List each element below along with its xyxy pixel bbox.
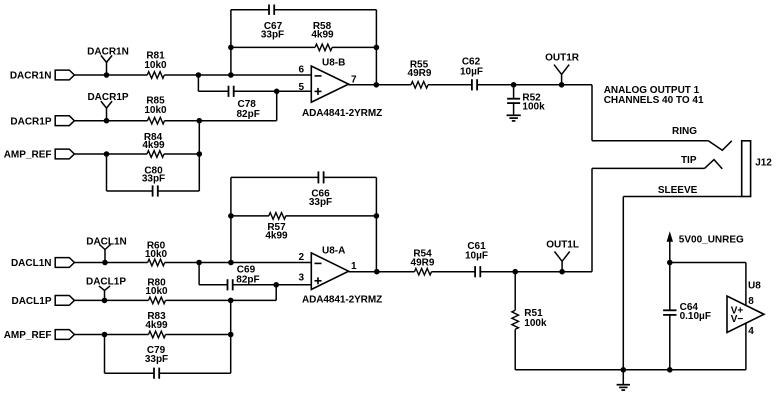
net flag DACR1N — [87, 46, 129, 77]
label ANALOG OUTPUT 1 — [604, 85, 700, 96]
resistor R83 — [145, 311, 168, 338]
svg-text:33pF: 33pF — [261, 30, 284, 41]
wire sleeve vertical to ground rail — [622, 197, 624, 370]
svg-text:49R9: 49R9 — [408, 68, 432, 79]
junction C64/ground rail — [667, 367, 673, 373]
svg-text:10k0: 10k0 — [144, 60, 167, 71]
svg-text:3: 3 — [298, 272, 304, 283]
svg-text:6: 6 — [298, 65, 304, 76]
svg-text:4: 4 — [748, 326, 754, 337]
wire C79 loop bottom left — [105, 372, 155, 374]
U8 pin 4 label — [748, 326, 754, 337]
resistor R60 — [145, 240, 168, 265]
svg-text:4k99: 4k99 — [311, 30, 334, 41]
wire vertical DACL1N to C69 — [198, 263, 200, 285]
wire C64 top lead — [669, 263, 671, 311]
capacitor C62 — [460, 57, 483, 91]
wire vertical wire1 to C78 — [197, 75, 199, 91]
wire R57 lead right — [286, 215, 377, 217]
wire R58 lead right — [332, 46, 376, 48]
op-amp U8-B — [311, 58, 348, 103]
svg-text:U8-A: U8-A — [322, 246, 345, 257]
wire R58 lead left — [231, 46, 315, 48]
wire AMP_REF port to R84 — [74, 153, 147, 155]
svg-text:4k99: 4k99 — [265, 231, 288, 242]
port DACL1P — [11, 296, 74, 308]
resistor R52 (cap-style symbol) — [507, 85, 545, 115]
label CHANNELS 40 TO 41 — [604, 95, 704, 106]
svg-text:DACL1P: DACL1P — [11, 296, 51, 307]
capacitor C64 — [663, 302, 711, 322]
wire C69 left lead — [199, 284, 227, 286]
svg-text:10k0: 10k0 — [145, 286, 168, 297]
wire R84 to junction — [164, 153, 199, 155]
junction wire1/feedback — [228, 72, 234, 78]
junction U8-B output node — [374, 82, 380, 88]
svg-text:ADA4841-2YRMZ: ADA4841-2YRMZ — [302, 108, 382, 119]
svg-text:OUT1L: OUT1L — [546, 240, 579, 251]
junction AMP_REF/C79 branch — [102, 332, 108, 338]
label TIP — [681, 155, 697, 166]
port AMP_REF (bottom) — [4, 330, 75, 342]
svg-text:DACL1N: DACL1N — [86, 236, 127, 247]
junction R51 branch — [512, 269, 518, 275]
junction pin5 node — [274, 89, 280, 95]
net flag DACL1N — [86, 236, 127, 265]
wire R55 to C62 — [428, 84, 472, 86]
resistor R57 — [265, 213, 288, 242]
svg-text:V−: V− — [731, 314, 744, 325]
wire feedback box right vertical (bottom) — [375, 177, 377, 271]
svg-text:33pF: 33pF — [142, 174, 165, 185]
svg-text:ADA4841-2YRMZ: ADA4841-2YRMZ — [302, 295, 382, 306]
svg-text:5V00_UNREG: 5V00_UNREG — [679, 234, 744, 245]
capacitor C69 — [228, 265, 260, 291]
wire feedback2 top right segment — [324, 176, 377, 178]
junction wire1/C78 branch — [196, 72, 202, 78]
junction pin3 node — [273, 282, 279, 288]
junction 5V node — [667, 260, 673, 266]
capacitor C79 — [145, 345, 168, 379]
wire C64 bottom lead — [669, 315, 671, 370]
wire C61 to corner — [480, 271, 592, 273]
wire R81 to op-amp pin 6 — [164, 74, 311, 76]
svg-text:SLEEVE: SLEEVE — [658, 185, 698, 196]
svg-text:DACL1N: DACL1N — [11, 258, 52, 269]
wire SLEEVE — [623, 196, 741, 198]
wire corner down to RING — [591, 85, 593, 141]
svg-text:U8-B: U8-B — [322, 58, 345, 69]
svg-text:8: 8 — [748, 296, 754, 307]
svg-text:82pF: 82pF — [237, 109, 260, 120]
svg-text:10µF: 10µF — [460, 66, 483, 77]
resistor R85 — [144, 96, 167, 124]
resistor R58 — [311, 21, 334, 51]
junction R85 output node — [197, 118, 203, 124]
wire RING — [592, 140, 708, 142]
connector J12 body — [742, 141, 773, 197]
svg-text:49R9: 49R9 — [411, 257, 435, 268]
svg-text:U8: U8 — [748, 280, 761, 291]
wire C79 loop bottom right — [159, 372, 231, 374]
op-amp U8-A — [311, 246, 348, 290]
wire U8 power vertical — [745, 263, 747, 370]
wire corner up to TIP — [591, 168, 593, 271]
svg-text:33pF: 33pF — [145, 354, 168, 365]
resistor R51 — [512, 272, 547, 370]
svg-text:10k0: 10k0 — [144, 105, 167, 116]
resistor R80 — [145, 277, 168, 303]
svg-text:10k0: 10k0 — [145, 249, 168, 260]
svg-text:RING: RING — [672, 126, 697, 137]
U8-A pin 1 label — [351, 261, 357, 272]
wire C80 loop bottom left — [107, 190, 153, 192]
svg-text:DACR1N: DACR1N — [87, 46, 129, 57]
svg-text:2: 2 — [298, 252, 304, 263]
resistor R84 — [142, 132, 165, 158]
wire vertical non-inverting tie (bottom) — [230, 300, 232, 373]
svg-text:DACR1P: DACR1P — [10, 116, 51, 127]
port AMP_REF (top) — [4, 149, 75, 161]
svg-text:DACR1N: DACR1N — [10, 71, 52, 82]
U8 pin 8 label — [748, 296, 754, 307]
wire TIP — [592, 167, 705, 169]
junction R84 output node — [197, 151, 203, 157]
wire feedback2 top left segment — [231, 176, 319, 178]
wire R83 to junction — [166, 334, 231, 336]
svg-text:33pF: 33pF — [309, 197, 332, 208]
wire C78 left lead — [198, 90, 228, 92]
U8-A part value ADA4841-2YRMZ — [302, 295, 382, 306]
resistor R54 — [411, 248, 435, 275]
capacitor C78 — [229, 86, 260, 120]
port DACR1N — [10, 70, 75, 82]
wire R60 to op-amp pin 2 — [165, 262, 312, 264]
junction U8-A output node — [374, 269, 380, 275]
svg-text:AMP_REF: AMP_REF — [4, 150, 52, 161]
wire C62 to corner — [477, 84, 592, 86]
wire C78 to op-amp pin 5 — [234, 90, 312, 92]
wire vertical pin5 node to DACR1P wire — [276, 91, 278, 120]
svg-text:DACL1P: DACL1P — [86, 276, 126, 287]
junction R80 output node — [228, 298, 234, 304]
svg-text:5: 5 — [298, 82, 304, 93]
wire DACR1P port to R85 — [74, 120, 147, 122]
resistor R81 — [144, 51, 167, 79]
wire AMP_REF port to R83 — [74, 334, 148, 336]
wire U8-A output to R54 — [349, 271, 415, 273]
port DACL1N — [11, 258, 74, 270]
wire feedback top right segment — [274, 9, 376, 11]
svg-text:CHANNELS 40 TO 41: CHANNELS 40 TO 41 — [604, 95, 704, 106]
U8 power symbol — [727, 296, 764, 333]
svg-text:TIP: TIP — [681, 155, 697, 166]
svg-text:AMP_REF: AMP_REF — [4, 330, 52, 341]
junction R52 branch — [511, 82, 517, 88]
net flag OUT1L — [546, 240, 579, 275]
junction R57 wire left — [228, 213, 234, 219]
net flag OUT1R — [545, 53, 580, 88]
junction AMP_REF/C80 branch — [104, 151, 110, 157]
net flag DACL1P — [86, 276, 126, 303]
jack J12 tip contact — [705, 160, 723, 169]
svg-text:7: 7 — [351, 74, 357, 85]
capacitor C80 — [142, 165, 165, 196]
net flag DACR1P — [87, 92, 128, 123]
wire C80 loop bottom right — [158, 190, 200, 192]
wire R57 lead left — [231, 215, 269, 217]
svg-text:0.10µF: 0.10µF — [680, 311, 711, 322]
junction DACL1N/C69 branch — [196, 260, 202, 266]
junction R58 wire right — [374, 45, 380, 51]
svg-text:4k99: 4k99 — [145, 320, 168, 331]
wire R54 to C61 — [432, 271, 476, 273]
label SLEEVE — [658, 185, 698, 196]
wire feedback box left vertical (top) — [230, 10, 232, 75]
wire C79 loop left vertical — [104, 335, 106, 374]
U8-B pin 5 label — [298, 82, 304, 93]
U8-B part value ADA4841-2YRMZ — [302, 108, 382, 119]
wire vertical pin3 node to DACL1P wire — [275, 285, 277, 301]
power flag 5V00_UNREG — [667, 231, 744, 262]
svg-text:82pF: 82pF — [236, 275, 259, 286]
port DACR1P — [10, 116, 74, 128]
svg-text:100k: 100k — [522, 101, 545, 112]
ground below R52 — [507, 115, 521, 121]
capacitor C66 — [309, 171, 332, 208]
junction DACL1N/feedback — [228, 260, 234, 266]
svg-text:OUT1R: OUT1R — [545, 53, 580, 64]
wire ground rail — [515, 369, 746, 371]
svg-text:4k99: 4k99 — [142, 140, 165, 151]
U8 power refdes label — [748, 280, 761, 291]
svg-text:DACR1P: DACR1P — [87, 92, 128, 103]
wire U8-B output to R55 — [349, 84, 411, 86]
junction R57 wire right — [374, 213, 380, 219]
wire R85 to pin5 vertical — [165, 120, 277, 122]
U8-B pin 7 label — [351, 74, 357, 85]
wire DACL1P port to R80 — [74, 299, 148, 301]
wire DACL1N port to R60 — [74, 262, 147, 264]
resistor R55 — [408, 59, 432, 88]
wire feedback box left vertical (bottom) — [230, 177, 232, 262]
wire feedback box right vertical (top) — [375, 10, 377, 85]
svg-text:1: 1 — [351, 261, 357, 272]
wire R80 to pin3 vertical — [166, 299, 277, 301]
U8-B pin 6 label — [298, 65, 304, 76]
label RING — [672, 126, 697, 137]
U8-A pin 2 label — [298, 252, 304, 263]
jack J12 ring contact — [708, 141, 732, 151]
junction sleeve/ground rail — [621, 367, 627, 373]
wire vertical non-inverting tie (top) — [198, 121, 200, 191]
capacitor C61 — [465, 241, 488, 277]
U8-A pin 3 label — [298, 272, 304, 283]
wire C80 loop left vertical — [106, 154, 108, 191]
wire DACR1N port to R81 — [74, 74, 147, 76]
svg-text:J12: J12 — [755, 158, 772, 169]
junction R83 output node — [228, 332, 234, 338]
junction R58 wire left — [228, 45, 234, 51]
ground symbol (rail) — [617, 370, 630, 390]
svg-text:100k: 100k — [524, 318, 547, 329]
wire C69 to op-amp pin 3 — [233, 284, 312, 286]
wire feedback top left segment — [231, 9, 269, 11]
svg-text:10µF: 10µF — [465, 251, 488, 262]
capacitor C67 — [261, 5, 284, 41]
wire 5V node to U8 V+ — [670, 262, 746, 264]
